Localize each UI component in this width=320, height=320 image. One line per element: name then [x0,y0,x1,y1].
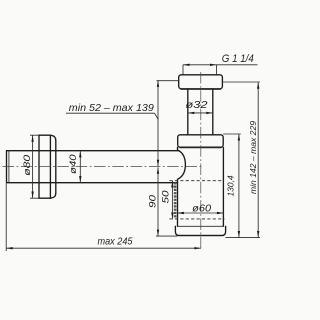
label hydroseal vertical tiny text [174,182,177,218]
svg-text:ø60: ø60 [192,203,211,214]
svg-text:G 1 1/4: G 1 1/4 [222,53,254,65]
cup to cap joint line [178,225,224,227]
vertical centerline cup axis [200,72,202,251]
horizontal centerline pipe axis [3,165,204,167]
bottom cap [175,226,225,235]
dimension G 1 1/4 [183,53,258,74]
svg-text:ø32: ø32 [186,100,209,111]
wall flange rosette D80 [39,135,56,198]
svg-text:ø40: ø40 [68,154,79,174]
dimension 50 water seal [160,181,173,219]
hidden water level line [170,180,224,182]
dimension D40 [68,151,82,183]
horizontal outlet pipe D40 [7,151,179,183]
dimension D80 [22,135,39,198]
body cup right wall [222,147,224,226]
svg-text:130,4: 130,4 [227,175,236,197]
dimension D32 [186,100,213,114]
hidden seal bottom line [170,218,225,220]
dimension max 245 [6,184,201,252]
dimension min 52 - max 139 [66,80,179,166]
svg-text:ø80: ø80 [22,154,33,176]
dimension min 142 - max 229 [222,82,260,238]
svg-text:90: 90 [147,194,158,208]
inlet pipe D32 [188,89,213,135]
lower nut [178,135,224,148]
dimension 130,4 [223,134,241,238]
dimension 90 [147,167,177,236]
top nut G 1 1/4 [179,75,223,90]
svg-text:min 142 – max 229: min 142 – max 229 [248,121,258,194]
svg-text:50: 50 [160,190,171,204]
svg-text:max 245: max 245 [98,237,133,248]
svg-text:min 52 – max 139: min 52 – max 139 [69,103,154,114]
body cup left wall with inlet bulge [178,147,186,226]
dimension D60 [177,203,223,214]
